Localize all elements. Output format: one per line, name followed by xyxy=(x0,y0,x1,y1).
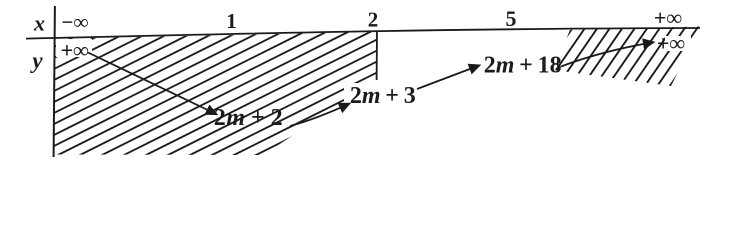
svg-text:+∞: +∞ xyxy=(61,37,90,62)
white gap around node +infinity (right) xyxy=(665,36,691,51)
wire: horizontal row-separator line xyxy=(26,28,700,39)
svg-text:−∞: −∞ xyxy=(62,10,89,34)
white gap around node 2m+3 xyxy=(344,83,418,111)
svg-text:+∞: +∞ xyxy=(654,5,683,30)
white gap around node +infinity (left) xyxy=(56,39,92,57)
arrow from 2m+2 up to 2m+3 xyxy=(290,104,349,126)
wire: vertical tick below label 2 xyxy=(376,32,378,81)
svg-text:2m + 3: 2m + 3 xyxy=(350,83,416,109)
arrow from +infinity down to 2m+2 xyxy=(88,53,216,115)
svg-text:1: 1 xyxy=(226,9,237,33)
svg-text:x: x xyxy=(33,11,45,36)
svg-text:2: 2 xyxy=(368,8,379,32)
svg-text:+∞: +∞ xyxy=(657,31,686,56)
wire: vertical header-separator line xyxy=(54,6,55,157)
arrow from 2m+18 up to +infinity xyxy=(561,42,653,66)
arrow from 2m+3 up to 2m+18 xyxy=(417,66,479,90)
right hatched region xyxy=(535,0,710,240)
svg-text:2m + 18: 2m + 18 xyxy=(484,53,562,79)
svg-text:y: y xyxy=(29,48,43,73)
left hatched region xyxy=(40,0,395,240)
svg-text:2m + 2: 2m + 2 xyxy=(214,105,284,131)
svg-text:5: 5 xyxy=(506,6,517,31)
